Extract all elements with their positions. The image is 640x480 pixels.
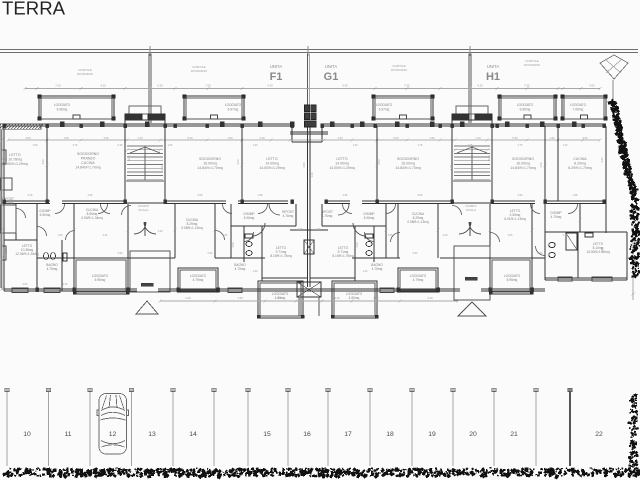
svg-text:3.30: 3.30	[103, 136, 109, 140]
svg-text:LOGGIATO: LOGGIATO	[517, 103, 534, 107]
parking right hatch column	[629, 464, 631, 466]
scatter tick 127,150	[125, 148, 128, 151]
parking divider x536	[535, 391, 537, 466]
right dim vertical	[632, 230, 634, 300]
central spine lower box	[297, 282, 321, 297]
door arc 98,204	[98, 204, 108, 214]
junction block 207,124	[206, 124, 209, 128]
svg-text:10: 10	[23, 431, 31, 438]
wall h y258 segs	[37, 257, 74, 259]
junction block 490,288	[489, 288, 492, 292]
svg-text:1.20: 1.20	[63, 283, 68, 286]
right outer wall upper	[605, 126, 607, 233]
bottom facade right wing	[545, 277, 627, 279]
svg-text:4.76mq: 4.76mq	[283, 214, 294, 218]
bottom dim tick 400	[398, 299, 401, 302]
svg-text:17: 17	[344, 431, 352, 438]
svg-text:2.75: 2.75	[418, 144, 423, 147]
partition row1 x377	[376, 126, 378, 201]
svg-text:10.78mq: 10.78mq	[8, 158, 22, 162]
courtyard wall x470	[468, 54, 470, 124]
parking divider x328	[327, 391, 329, 466]
svg-text:4.18: 4.18	[28, 194, 33, 197]
svg-text:0.90: 0.90	[118, 252, 123, 255]
svg-text:14.00/9=1.29mq: 14.00/9=1.29mq	[259, 166, 284, 170]
bottom dim tick 265	[263, 299, 266, 302]
svg-text:8.29mq: 8.29mq	[574, 162, 586, 166]
svg-text:LETTO: LETTO	[266, 157, 277, 161]
svg-text:H1: H1	[486, 71, 500, 83]
facade pier x290	[290, 122, 294, 127]
svg-text:1.50: 1.50	[549, 136, 555, 140]
svg-text:1.98: 1.98	[258, 194, 263, 197]
svg-text:4.79mq: 4.79mq	[193, 278, 204, 282]
left outer wall	[3, 126, 5, 291]
parking divider x288	[287, 391, 289, 466]
left dim tick 201	[0, 199, 3, 202]
svg-text:2.40: 2.40	[334, 296, 340, 300]
junction block 242,124	[241, 124, 244, 128]
facade pier x460	[460, 122, 464, 127]
courtyard wall x308	[306, 54, 308, 106]
svg-text:4.75mq: 4.75mq	[235, 267, 246, 271]
right dim tick 232	[631, 230, 634, 233]
facade pier x572	[572, 122, 576, 127]
boundary tick x470	[469, 46, 471, 56]
svg-text:2.75: 2.75	[518, 144, 523, 147]
junction block 492,124	[491, 124, 494, 128]
junction block 407,124	[406, 124, 409, 128]
facade recess center	[292, 139, 322, 141]
door arc 452,215	[452, 206, 462, 216]
svg-text:4.30: 4.30	[342, 84, 348, 88]
central spine wall	[306, 126, 308, 287]
svg-text:19: 19	[428, 431, 436, 438]
svg-text:LOGGIATO: LOGGIATO	[225, 103, 242, 107]
junction block 492,200	[491, 200, 494, 204]
svg-text:1.30: 1.30	[253, 144, 258, 147]
svg-text:2.90: 2.90	[88, 194, 93, 197]
svg-text:2.40: 2.40	[443, 234, 448, 237]
svg-text:5.06mq: 5.06mq	[244, 216, 255, 220]
svg-text:0.90: 0.90	[208, 252, 213, 255]
bottom dim line	[160, 300, 458, 302]
scatter tick 545,165	[543, 163, 546, 166]
partition row2 x580	[579, 204, 581, 232]
junction block 377,200	[376, 200, 379, 204]
porch triangle right	[458, 302, 486, 316]
svg-text:1.06: 1.06	[298, 228, 303, 231]
scatter tick 487,150	[485, 148, 488, 151]
svg-text:16: 16	[303, 431, 311, 438]
svg-text:UNITA: UNITA	[270, 64, 282, 69]
svg-text:0.90/9=1.34mq: 0.90/9=1.34mq	[81, 216, 103, 220]
svg-text:6.50mq: 6.50mq	[40, 213, 51, 217]
svg-text:6.97mq: 6.97mq	[379, 107, 390, 111]
svg-text:SCALA: SCALA	[466, 208, 477, 212]
scatter tick 242,165	[240, 163, 243, 166]
junction block 218,288	[217, 288, 220, 292]
junction block 165,200	[164, 200, 167, 204]
bottom facade 2	[158, 288, 460, 290]
partition row2 x262	[261, 226, 263, 281]
svg-text:G1: G1	[324, 71, 339, 83]
fixture wc F1	[246, 242, 252, 247]
svg-text:1.20: 1.20	[363, 270, 368, 273]
junction block 322,124	[321, 124, 324, 128]
svg-text:1.05: 1.05	[388, 234, 393, 237]
svg-text:1.20: 1.20	[253, 270, 258, 273]
door arc 568,204	[568, 204, 578, 214]
left boundary hatched wall	[0, 124, 41, 129]
svg-text:6.95mq: 6.95mq	[95, 278, 106, 282]
door arc 258,204	[258, 204, 268, 214]
corridor wall x547	[547, 200, 606, 202]
svg-text:1.98: 1.98	[343, 194, 348, 197]
door arc 244,232	[244, 232, 254, 242]
svg-text:16.00mq: 16.00mq	[203, 162, 217, 166]
fixture wc H1	[549, 242, 555, 247]
svg-text:0.08/9=1.13mq: 0.08/9=1.13mq	[407, 220, 429, 224]
svg-text:UNITA: UNITA	[325, 64, 337, 69]
scatter tick 490,230	[488, 228, 491, 231]
svg-text:1.50: 1.50	[373, 296, 379, 300]
svg-text:4.10: 4.10	[100, 84, 106, 88]
facade dim tick 207	[205, 138, 208, 141]
facade dim tick 600	[598, 138, 601, 141]
facade dim tick 324	[322, 138, 325, 141]
partition row2 x545	[544, 204, 546, 280]
top dim tick x527	[525, 87, 528, 90]
svg-text:14.84/9=1.70mq: 14.84/9=1.70mq	[75, 166, 100, 170]
svg-text:5.08: 5.08	[418, 194, 423, 197]
partition row1 x242	[241, 126, 243, 201]
svg-text:4.10: 4.10	[477, 84, 483, 88]
parking divider x90	[89, 391, 91, 466]
junction block 125,124	[124, 124, 127, 128]
partition row2 x175	[174, 204, 176, 258]
parking divider x131.5	[131, 391, 133, 466]
facade pier x395	[395, 122, 399, 127]
wall h y226 F1	[231, 225, 296, 227]
right outer wall lower	[626, 232, 628, 280]
svg-text:2.40: 2.40	[185, 296, 191, 300]
top dim tick x81	[79, 87, 82, 90]
junction block 47,124	[46, 124, 49, 128]
porch triangle left	[136, 301, 158, 314]
top dim tick x440	[438, 87, 441, 90]
diagonal hatch band	[621, 145, 624, 148]
top dim tick x308	[306, 87, 309, 90]
facade dim tick 527	[525, 138, 528, 141]
scatter tick 37,250	[35, 248, 38, 251]
facade pier x540	[540, 122, 544, 127]
junction block 452,124	[451, 124, 454, 128]
facade dim tick 127	[125, 138, 128, 141]
facade pier x505	[505, 122, 509, 127]
door arc 55,204	[55, 204, 65, 214]
facade pier x60	[60, 122, 64, 127]
bottom dim tick 458	[456, 299, 459, 302]
left dim tick 230	[0, 228, 3, 231]
corridor wall x165	[165, 200, 226, 202]
partition row2 x215	[214, 204, 216, 258]
bottom dim tick 352	[350, 299, 353, 302]
right wing sill notches	[558, 277, 572, 281]
top dim tick x242	[240, 87, 243, 90]
facade pier x145	[145, 122, 149, 127]
svg-text:15: 15	[263, 431, 271, 438]
facade pier x430	[430, 122, 434, 127]
facade dim tick 8	[6, 138, 9, 141]
svg-text:SOGGIORNO: SOGGIORNO	[199, 157, 221, 161]
parcel corner marker	[600, 55, 628, 79]
top dim tick x407	[405, 87, 408, 90]
central shaft dark chunk	[305, 105, 310, 112]
svg-text:4.50: 4.50	[539, 162, 543, 168]
junction block 352,124	[351, 124, 354, 128]
partition row2 x490	[489, 204, 491, 258]
facade dim tick 558	[556, 138, 559, 141]
central spine stubs	[290, 131, 328, 133]
junction block 375,124	[374, 124, 377, 128]
partition row2 x16	[15, 204, 17, 240]
wc shaft	[304, 240, 314, 254]
svg-text:20: 20	[469, 431, 477, 438]
big arc soggiorno F1	[269, 204, 280, 215]
loggia box 373	[373, 96, 433, 119]
stair entry arcs right	[459, 222, 471, 234]
partition row2 x37	[36, 204, 38, 291]
top dim tick x208	[206, 87, 209, 90]
scatter tick 386,230	[384, 228, 387, 231]
door arc 374,232	[365, 232, 375, 242]
loggia box 184	[184, 96, 244, 119]
scatter tick 47,165	[45, 163, 48, 166]
junction block 37,288	[36, 288, 39, 292]
scatter tick 438,230	[436, 228, 439, 231]
top dim tick x563	[561, 87, 564, 90]
svg-text:14.00mq: 14.00mq	[335, 162, 349, 166]
facade dim tick 455	[453, 138, 456, 141]
svg-text:SOGGIORNO: SOGGIORNO	[397, 157, 419, 161]
partition row2 x62	[61, 240, 63, 291]
svg-text:1.50: 1.50	[63, 136, 69, 140]
svg-text:8.19/9=1.75mq: 8.19/9=1.75mq	[270, 254, 292, 258]
car in stall 12	[97, 394, 129, 455]
svg-text:5.30: 5.30	[157, 84, 163, 88]
stair core left	[129, 106, 161, 114]
svg-text:LOGGIATO: LOGGIATO	[376, 103, 393, 107]
svg-text:LETTO: LETTO	[9, 153, 20, 157]
junction block 47,200	[46, 200, 49, 204]
svg-text:4.75mq: 4.75mq	[47, 267, 58, 271]
junction block 292,124	[291, 124, 294, 128]
svg-text:1.05: 1.05	[168, 144, 173, 147]
left dim tick 160	[0, 158, 3, 161]
svg-text:4.70mq: 4.70mq	[551, 215, 562, 219]
svg-text:14: 14	[189, 431, 197, 438]
top dim tick x600	[598, 87, 601, 90]
fixture wc G1	[366, 242, 372, 247]
bottom facade 1	[4, 288, 137, 290]
facade dim tick 290	[288, 138, 291, 141]
partition row2 x398	[397, 204, 399, 258]
junction block 545,200	[544, 200, 547, 204]
big door arc G1 letto	[353, 223, 366, 236]
svg-text:4.30: 4.30	[267, 84, 273, 88]
door arc 232,204	[223, 204, 233, 214]
top dim tick x581	[579, 87, 582, 90]
junction block 125,124	[124, 124, 127, 128]
svg-text:14.00/9=1.29mq: 14.00/9=1.29mq	[329, 166, 354, 170]
parking divider x494	[493, 391, 495, 466]
parking divider x173	[172, 391, 174, 466]
svg-text:DIVISORIO: DIVISORIO	[191, 69, 208, 73]
junction block 4,200	[3, 200, 6, 204]
partition row2 x322	[321, 204, 323, 226]
scatter tick 128,230	[126, 228, 129, 231]
svg-text:4.50: 4.50	[236, 159, 240, 165]
junction block 4,124	[3, 124, 6, 128]
junction block 497,124	[496, 124, 499, 128]
parking divider x214	[213, 391, 215, 466]
svg-text:6.96mq: 6.96mq	[520, 107, 531, 111]
bottom dim tick 296	[294, 299, 297, 302]
stair core right	[456, 106, 488, 114]
door arc 110,204	[101, 204, 111, 214]
top dim tick x558	[556, 87, 559, 90]
facade dim row	[8, 139, 600, 141]
central spine feet	[298, 297, 300, 316]
svg-text:7.05: 7.05	[524, 84, 530, 88]
scatter tick 580,220	[578, 218, 581, 221]
junction block 326,200	[325, 200, 328, 204]
facade wall right part	[322, 123, 606, 125]
parking divider x412	[411, 391, 413, 466]
bottom dim tick 160	[158, 299, 161, 302]
facade pier x220	[220, 122, 224, 127]
svg-text:1.30: 1.30	[563, 144, 568, 147]
svg-text:4.30: 4.30	[259, 136, 265, 140]
bottom hatch strip	[67, 473, 71, 477]
wall h y240 left	[4, 239, 37, 241]
facade dim tick 487	[485, 138, 488, 141]
loggia box 562	[562, 96, 606, 119]
svg-text:8.19/9=1.75mq: 8.19/9=1.75mq	[332, 254, 354, 258]
svg-text:2.40: 2.40	[103, 234, 108, 237]
junction block 558,124	[557, 124, 560, 128]
svg-text:5.30: 5.30	[393, 136, 399, 140]
svg-text:4.00: 4.00	[589, 84, 595, 88]
corridor wall x62	[62, 200, 125, 202]
junction block 178,288	[177, 288, 180, 292]
facade dim tick 377	[375, 138, 378, 141]
fixture wc left	[44, 253, 49, 260]
parking divider x7	[6, 391, 8, 466]
facade dim tick 352	[350, 138, 353, 141]
svg-text:21: 21	[510, 431, 518, 438]
svg-text:1.06: 1.06	[316, 228, 321, 231]
svg-text:3.05: 3.05	[487, 155, 491, 161]
partition row2 x355	[354, 226, 356, 281]
bottom facade 3	[481, 288, 545, 290]
parking divider x453	[452, 391, 454, 466]
junction block 604,124	[603, 124, 606, 128]
svg-text:1.30: 1.30	[353, 144, 358, 147]
svg-text:2.40: 2.40	[427, 296, 433, 300]
svg-text:6.96mq: 6.96mq	[57, 107, 68, 111]
parking divider dark x570	[569, 391, 571, 466]
scatter tick 455,150	[453, 148, 456, 151]
partition row2 x386	[385, 204, 387, 258]
left dim tick 258	[0, 256, 3, 259]
facade dim tick 47	[45, 138, 48, 141]
bottom dim tick 215	[213, 299, 216, 302]
junction block 74,288	[73, 288, 76, 292]
left small rect A	[0, 178, 12, 190]
svg-text:TERRA: TERRA	[2, 0, 66, 19]
svg-text:0.08/9=1.13mq: 0.08/9=1.13mq	[181, 226, 203, 230]
junction block 452,200	[451, 200, 454, 204]
svg-text:1.50: 1.50	[429, 136, 435, 140]
bottom dim tick 322	[320, 299, 323, 302]
svg-text:11: 11	[64, 431, 71, 438]
svg-text:4.76mq: 4.76mq	[322, 214, 333, 218]
svg-text:1.50: 1.50	[237, 296, 243, 300]
door arc 37,236	[37, 227, 47, 237]
svg-text:6.95mq: 6.95mq	[507, 278, 518, 282]
facade wall left part	[4, 123, 292, 125]
svg-text:DIVISORIO: DIVISORIO	[391, 68, 408, 72]
wall h y226 G1	[322, 225, 386, 227]
junction block 125,200	[124, 200, 127, 204]
svg-text:2.90: 2.90	[518, 194, 523, 197]
parking divider x48.5	[48, 391, 50, 466]
top dim tick x150	[148, 87, 151, 90]
partition row2 x74	[73, 204, 75, 258]
svg-text:UNITA: UNITA	[487, 64, 499, 69]
svg-text:4.18: 4.18	[449, 165, 453, 171]
stair porch left	[130, 251, 170, 292]
shower H1	[566, 233, 577, 250]
svg-text:SOGGIORNO: SOGGIORNO	[512, 157, 534, 161]
svg-text:4.50: 4.50	[25, 136, 31, 140]
svg-text:4.18: 4.18	[160, 165, 164, 171]
loggia box 39	[39, 96, 114, 119]
facade dim tick 440	[438, 138, 441, 141]
partition row1 x545	[544, 126, 546, 201]
svg-text:1.20: 1.20	[310, 172, 314, 178]
corridor wall x4	[4, 200, 50, 202]
door arc 16,218	[16, 209, 26, 219]
door arc 386,204	[386, 204, 396, 214]
junction block 440,124	[439, 124, 442, 128]
svg-text:F1: F1	[270, 71, 283, 83]
facade pier x100	[100, 122, 104, 127]
central cross wall y230	[290, 229, 328, 231]
center rooms bottom wall	[262, 277, 307, 279]
svg-text:LETTO: LETTO	[336, 157, 347, 161]
corridor wall x492	[492, 200, 535, 202]
svg-text:4.50: 4.50	[377, 159, 381, 165]
svg-text:5.30: 5.30	[187, 136, 193, 140]
loggia box 499	[499, 96, 556, 119]
junction block 165,124	[164, 124, 167, 128]
svg-text:1.05: 1.05	[223, 234, 228, 237]
stair porch right	[454, 246, 490, 300]
svg-text:1.20: 1.20	[137, 136, 143, 140]
